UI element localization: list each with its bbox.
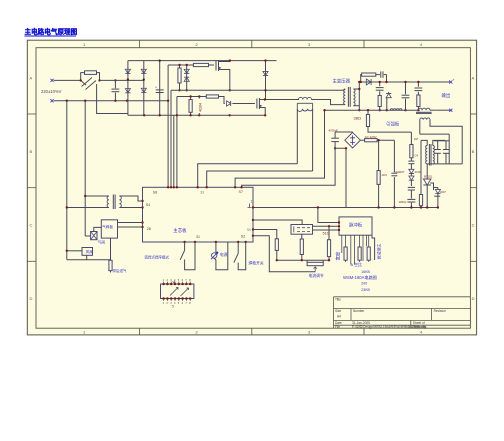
output inductor L1 [390,109,402,110]
pulse board right route [372,235,375,260]
pulse board trim resistors [345,235,347,247]
board left pins 28 [141,221,143,223]
filter resistor R3 [378,96,381,107]
svg-text:31: 31 [196,235,200,239]
wire CT secondary leads [296,109,298,164]
terminal output plus [449,80,452,83]
svg-text:主芯板: 主芯板 [173,227,187,234]
svg-text:1000p: 1000p [399,200,407,204]
mid rail to transformer primary [171,89,344,91]
dc top bus [128,60,277,62]
wire secondary vertical [358,82,360,110]
connector J5 arrows [170,288,189,297]
transformer T1 primary winding [344,89,346,105]
output plus rail [359,81,451,83]
terminal N input [50,99,53,102]
wire T2 primary top [85,195,109,197]
connector J5 box [161,284,194,299]
svg-text:电源: 电源 [220,252,228,257]
wire remote to pulse B [313,229,340,231]
wire T2 secondary bottom [119,207,142,209]
snubber capacitor C out [376,74,380,76]
svg-text:气阀板: 气阀板 [102,224,113,229]
connector J5 pins bottom [162,297,165,300]
capacitor C arc2 [408,186,415,188]
control transformer T2 primary [107,196,109,208]
wire net L3 sense to board [235,110,324,187]
transistor Q2 IGBT [256,99,258,109]
control transformer T2 core [112,195,114,210]
zener stack arc [409,169,414,173]
wire fan to vertical [67,250,82,252]
wire T3 right loop [448,134,450,164]
control transformer T2 secondary [119,196,121,208]
resistor R aux series [365,139,378,142]
transformer T1 core [347,87,349,107]
wire T3 left branch [420,140,422,194]
zener ZD3 gate2 [219,97,225,104]
gnd tick arc [434,195,440,197]
wire hang branch A [253,230,277,239]
SCR arc [426,169,428,179]
svg-text:C: C [30,223,33,228]
svg-text:220±10%V: 220±10%V [41,89,62,94]
svg-text:1K3: 1K3 [382,173,388,177]
wire to remote box top [253,220,302,225]
zener ZD4 output [386,98,388,111]
HF transformer core [416,111,432,113]
RC leg C5 [417,82,419,87]
title block texts [335,298,446,329]
wire secondary top lead [353,88,359,90]
wire gate net2 rail [177,96,206,98]
wire HF secondary left lead [419,120,421,135]
svg-text:D: D [472,296,475,301]
HF coupling transformer primary [418,108,430,110]
diode arc [435,189,440,193]
wire bottom gas rail [67,259,111,261]
arc board bottom rail [427,163,462,165]
svg-text:28: 28 [147,227,151,231]
svg-text:A4: A4 [337,315,341,319]
capacitor C aux2 [393,140,395,172]
output minus rail [325,109,417,111]
breaker SW top box [85,71,97,75]
wire fan bottom [86,255,88,259]
resistor R 38ohm [367,110,369,114]
pulse board stub wires [341,235,343,253]
filter capacitor C3 [379,82,381,86]
wire bridge2 top lead [335,131,353,133]
svg-text:输出: 输出 [442,92,451,99]
svg-text:D: D [30,296,33,301]
wire valve board to main A [118,222,143,224]
svg-text:Revision: Revision [434,309,446,313]
wire bridge2 bottom lead [335,142,346,149]
capacitor C4 output [405,82,407,94]
svg-text:5: 5 [172,304,174,308]
wire gate net1 rail [168,64,193,66]
svg-text:A: A [472,76,475,81]
title block dividers [351,309,432,329]
board top pin dots [167,186,169,188]
svg-text:C4: C4 [415,154,419,158]
resistor R gate1 [179,65,181,68]
svg-text:33: 33 [247,228,251,232]
svg-text:2CW: 2CW [415,170,422,174]
svg-text:Size: Size [335,309,341,313]
svg-text:S2: S2 [241,234,245,238]
switch torch [237,242,239,253]
wire net L4 aux to board [242,148,336,187]
svg-text:38Ω: 38Ω [354,116,361,121]
wire primary top [344,89,345,90]
svg-text:B: B [30,149,33,154]
HF transformer T3 core [428,144,430,166]
wire bridge2 to gnd bus [345,148,347,207]
svg-text:弧焊点焊序模式: 弧焊点焊序模式 [145,255,170,260]
resistor R arc1 [410,132,412,144]
connector J5 pin labels [163,278,192,305]
svg-text:电流调节: 电流调节 [309,273,324,278]
svg-text:16KB: 16KB [361,270,370,274]
wire from breaker low contact [97,90,128,114]
wire pot rail [277,259,329,261]
wire bridge2 right to R [360,139,364,141]
svg-text:+: + [155,86,157,90]
capacitor C arc1 [410,158,412,161]
svg-text:1: 1 [251,200,253,204]
wire 38ohm to arc board [368,127,411,133]
board right pin dots [252,206,254,208]
wire primary bottom path [312,100,344,105]
svg-text:4007: 4007 [440,190,446,194]
wire HF secondary right lead loop [430,120,462,164]
resistor R 1K3 [378,140,380,170]
wire secondary bottom lead [353,105,359,107]
power lamp [215,242,217,253]
svg-text:1N4007: 1N4007 [394,170,405,174]
potentiometer current [307,262,323,265]
arc board top rail [420,133,449,135]
resistor R gate1 series [193,63,208,66]
HF transformer secondary [420,118,430,120]
svg-text:+: + [453,78,455,82]
capacitor C spark2 [445,141,447,150]
junction dots input line [80,79,82,81]
svg-text:宽度: 宽度 [334,251,341,260]
wire bundle gate drive 1 [167,65,169,187]
wire net L2 CT to board [207,171,313,187]
capacitor C arc3 [407,198,415,200]
svg-text:Drawn by:: Drawn by: [413,325,427,329]
wire bundle gate drive 4 [176,97,178,188]
gnd bus aux [253,207,438,209]
capacitor input filter C1 [114,80,116,88]
wire Q2 source [264,108,266,116]
wire valve board to main B [118,226,143,228]
HF transformer T3 winding R [433,146,435,164]
bridge rectifier B2 [345,132,361,148]
zone divider ticks [139,40,141,48]
remote connector box [291,225,313,235]
capacitor C spark1 [437,141,439,150]
svg-text:S4: S4 [146,203,150,207]
svg-text:4Ω04: 4Ω04 [199,103,203,112]
wire remote to pulse A [313,225,340,227]
wire left vertical B [84,101,86,236]
title block frame [334,297,471,328]
wire Q2 drain [265,99,299,101]
svg-text:脉冲板: 脉冲板 [349,221,363,228]
bulk capacitor C2 [159,61,161,116]
svg-text:33: 33 [200,191,204,195]
svg-text:气阀: 气阀 [98,240,106,245]
connector J5 top mark [173,281,176,284]
resistor R gate2 pulldown [190,97,192,100]
svg-text:S8: S8 [153,191,157,195]
resistor R pot feed [301,234,303,239]
svg-text:主电路电气原理图: 主电路电气原理图 [25,27,78,36]
fan box [82,248,93,256]
zener pair ZD1 [186,65,188,90]
svg-text:Title: Title [335,298,341,302]
svg-text:风扇: 风扇 [86,249,94,254]
rectifier leg D1 D2 [127,61,129,116]
sheet background [27,40,476,335]
wire T3 top leads [421,140,427,145]
svg-text:BT151: BT151 [424,175,433,179]
terminal output minus [435,109,451,111]
transformer T1 secondary winding [353,89,355,106]
wire bundle gate drive 2 [170,90,172,187]
terminal L input [50,79,53,82]
resistor R arc2 [419,195,422,206]
svg-text:1M: 1M [414,137,419,141]
pin 1 marker [248,204,252,208]
current transformer CT1 [299,97,312,99]
resistor delay R [110,238,112,260]
svg-text:S7: S7 [239,190,243,194]
wire bus branch to pulse [318,208,339,223]
capacitor C aux 4700uF [334,132,336,138]
switch mode select [184,242,186,250]
main board box [143,187,254,242]
wire bundle gate drive 3 [173,115,175,187]
gas valve board box [101,220,117,238]
gas valve symbol [91,232,97,240]
svg-text:衰减测试: 衰减测试 [376,244,381,260]
svg-text:Number: Number [353,309,365,313]
wire T2 primary bottom [67,207,109,209]
svg-text:A 空比: A 空比 [351,262,362,267]
svg-text:WSM-160A电路图: WSM-160A电路图 [343,274,377,281]
dc bottom bus [128,114,265,116]
pot wiper arrow [314,267,317,272]
pulse board box [339,217,372,235]
svg-text:滞后送气: 滞后送气 [113,268,127,273]
connector J5 pins top [162,283,165,286]
transistor Q1 IGBT [209,64,215,66]
snubber zener ZD2 on Q1 [265,61,267,100]
wire valve to board stub [94,227,102,231]
svg-text:C: C [472,223,475,228]
svg-text:200: 200 [361,282,367,286]
svg-text:File: File [335,325,340,329]
svg-text:引弧板: 引弧板 [386,120,400,127]
resistor R 51 [328,225,330,227]
wire left vertical A [66,101,68,260]
wire hang branch B wiper [253,236,315,272]
output rectifier diode D5 [366,79,371,85]
svg-text:焊枪开关: 焊枪开关 [249,260,264,265]
wire net L1 CT to board [198,164,298,188]
svg-text:23KB: 23KB [361,288,370,292]
svg-text:B: B [472,149,475,154]
resistor R gate2 series [206,95,218,98]
HF transformer T3 winding L [426,146,428,164]
svg-text:主变压器: 主变压器 [333,77,351,84]
rectifier leg D3 D4 [143,61,145,116]
wire T2 secondary top [119,196,142,201]
wire AC1 to bridge [100,79,144,81]
RC leg R5 [417,95,420,107]
board left pins S4 [141,200,143,202]
snubber resistor R out [360,75,363,82]
svg-text:A: A [30,76,33,81]
sheet inner border [36,48,470,329]
arc inner link [434,140,449,142]
resistor R hang [275,239,278,251]
board bottom pins [183,241,185,243]
breaker SW contacts [81,73,85,81]
